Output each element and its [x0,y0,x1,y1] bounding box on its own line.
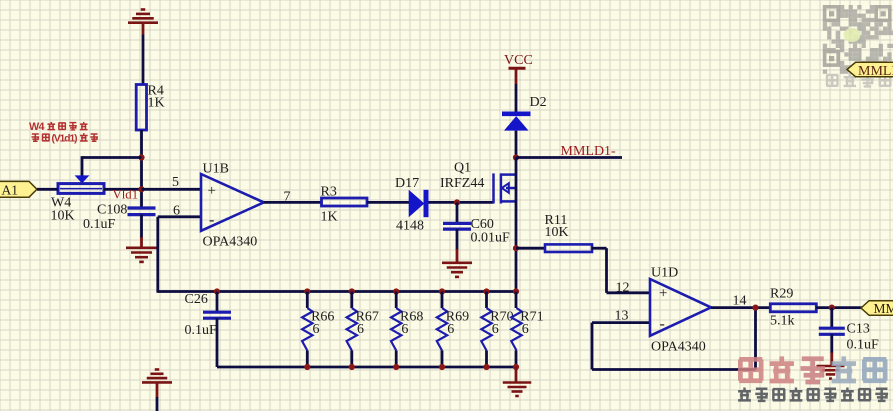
svg-text:6: 6 [357,322,364,337]
diode D17 [409,190,426,217]
svg-text:5: 5 [172,175,179,190]
svg-text:VCC: VCC [504,53,533,68]
resistor R4 [136,85,146,131]
svg-text:U1D: U1D [651,266,678,281]
svg-text:0.1uF: 0.1uF [83,217,116,232]
junction R68 bottom [393,364,399,370]
wire VCC to D2 [515,84,518,113]
svg-text:6: 6 [313,322,320,337]
svg-text:0.1uF: 0.1uF [847,338,880,353]
potentiometer W4 body [58,184,104,194]
capacitor C13 [819,308,845,335]
wire U1D pin 13 feedback [592,308,756,370]
svg-text:6: 6 [447,322,454,337]
wire U1D pin 14 output [711,306,770,309]
svg-text:0.1uF: 0.1uF [185,323,218,338]
op-amp U1D [650,279,711,336]
wire bottom bus [217,366,516,369]
wire C26 to bottom bus [216,318,219,367]
potentiometer W4 wiper arrow [75,175,90,183]
ground bottom center [503,383,532,397]
junction node MMLD1- [513,154,519,160]
svg-text:+: + [208,183,216,199]
wire ground to R4 [142,35,145,85]
svg-text:10K: 10K [51,209,75,224]
svg-text:10K: 10K [545,225,569,240]
svg-text:14: 14 [733,294,747,309]
svg-text:+: + [659,286,667,302]
resistor R70 [481,292,491,368]
ground below C60 [442,263,472,277]
junction R66 bottom [304,364,310,370]
svg-text:OPA4340: OPA4340 [203,235,258,250]
capacitor C60 [443,202,471,229]
resistor R66 [302,292,312,368]
svg-text:U1B: U1B [203,162,229,177]
annotation text W4 clockwise [29,121,98,144]
junction R71 bottom [513,364,519,370]
watermark wechat text [826,73,891,86]
svg-text:A1: A1 [2,183,19,198]
svg-text:C13: C13 [847,322,870,337]
svg-text:12: 12 [616,281,630,296]
wire R71 to ground [515,367,518,383]
junction output node [752,305,758,311]
wire U1B pin 7 output [264,201,322,204]
wire R4 to node Vld1 [140,130,143,207]
ground bottom left (inverted) [142,370,172,398]
junction R70 bottom [483,364,489,370]
svg-text:MMLD: MMLD [858,64,893,79]
junction R70 top [483,288,489,294]
wire C108 to ground [140,215,143,238]
svg-text:Q1: Q1 [454,161,471,176]
svg-text:(V1d1): (V1d1) [52,133,78,144]
wire D17 to Q1 gate [429,201,494,204]
wire Q1 to R11 [516,247,545,250]
junction R69 bottom [439,364,445,370]
junction C13 tap [829,305,835,311]
svg-text:1K: 1K [321,210,338,225]
svg-text:IRFZ44: IRFZ44 [440,176,484,191]
watermark brand text [739,356,886,382]
svg-text:C26: C26 [185,292,208,307]
power VCC [504,53,533,84]
svg-text:5.1k: 5.1k [770,314,795,329]
svg-text:6: 6 [522,322,529,337]
svg-text:R29: R29 [770,287,793,302]
svg-text:4148: 4148 [396,219,424,234]
svg-text:-: - [660,316,665,333]
port A1 [0,181,37,197]
port MMLD1 (top right) [847,62,893,79]
watermark slogan text [738,387,888,400]
svg-text:6: 6 [492,322,499,337]
svg-text:R3: R3 [321,185,337,200]
wire C60 to ground [456,229,459,250]
junction R68 top [393,288,399,294]
resistor R69 [437,292,447,368]
svg-text:13: 13 [615,309,629,324]
wire R29 to port [816,306,862,309]
svg-text:6: 6 [401,322,408,337]
wire junction to wiper [82,156,142,176]
junction R69 top [439,288,445,294]
transistor Q1 MOSFET [494,173,517,203]
watermark QR code [823,5,893,74]
svg-text:1K: 1K [148,96,165,111]
junction at R4 / wiper branch [138,154,144,160]
junction node Vld1 [138,186,144,192]
resistor R29 [770,304,816,312]
op-amp U1B [201,174,264,231]
wire net MMLD1- [516,156,622,159]
resistor R67 [347,292,357,368]
svg-text:Vld1: Vld1 [113,188,139,202]
svg-text:MMLD1-: MMLD1- [561,144,617,159]
svg-text:W4: W4 [29,121,45,133]
svg-text:MML: MML [874,301,893,316]
wire port A1 to W4 [37,188,58,191]
svg-text:OPA4340: OPA4340 [651,340,706,355]
ground below C13 [817,366,845,379]
junction at C60 tap [454,199,460,205]
wire R11 to U1D pin 12 [592,248,650,293]
resistor R3 [322,198,368,206]
resistor R68 [391,292,401,368]
svg-text:6: 6 [173,204,180,219]
wire R3 to D17 [367,201,409,204]
svg-text:-: - [209,212,214,229]
diode D2 [502,114,531,131]
capacitor C26 [203,292,231,319]
ground below C108 [126,248,157,262]
junction R67 bottom [349,364,355,370]
wire node Vld1 to U1B pin 5 [142,188,202,191]
junction R71 top [513,288,519,294]
port MMLD1 (bottom right) [861,301,893,316]
wire ground stub to edge [156,397,159,411]
junction R66 top [304,288,310,294]
ground GND1 (top, inverted) [128,10,158,35]
resistor R11 [545,244,592,252]
svg-text:D17: D17 [395,176,419,191]
wire U1B pin 6 feedback [158,217,201,293]
capacitor C108 [128,208,156,215]
junction R11 tap [513,245,519,251]
wire D2 to node MMLD1- [515,131,518,158]
junction R67 top [349,288,355,294]
svg-text:D2: D2 [530,95,547,110]
svg-text:C108: C108 [97,203,127,218]
wire Q1 drain-source rail [515,158,518,293]
wire W4 to node Vld1 [104,188,142,191]
wire C13 to ground [830,334,833,353]
junction C26 [214,288,220,294]
wire top feedback bus [158,290,516,293]
svg-text:7: 7 [284,190,291,205]
resistor R71 [511,292,521,368]
svg-text:0.01uF: 0.01uF [471,231,511,246]
